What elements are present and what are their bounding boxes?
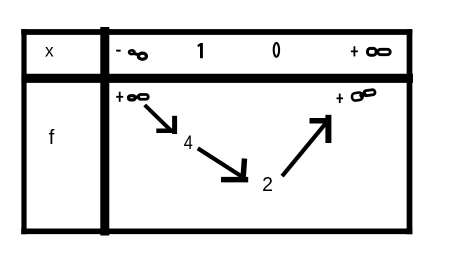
svg-text:2: 2 <box>262 174 273 197</box>
infinity symbol f-row right <box>351 89 375 101</box>
table outer border left edge <box>21 29 26 234</box>
plus sign of +infinity f-row left <box>116 92 123 102</box>
plus sign of +infinity f-row right <box>337 94 344 103</box>
minus sign of -infinity <box>116 50 121 52</box>
row separator line <box>21 74 413 83</box>
svg-text:f: f <box>49 127 55 149</box>
value 1 <box>198 43 203 58</box>
column divider line <box>100 27 109 236</box>
infinity symbol top-left <box>128 49 147 59</box>
plus sign of +infinity top-right <box>351 46 358 56</box>
table outer border top edge <box>21 29 412 35</box>
arrow 1 shaft (down-right) <box>145 105 171 130</box>
arrow 3 head <box>310 115 330 143</box>
arrow 2 shaft (down-right) <box>198 148 241 176</box>
svg-text:4: 4 <box>184 131 193 153</box>
arrow 2 head <box>221 159 248 180</box>
arrow 1 head <box>156 116 175 134</box>
arrow 3 shaft (up-right) <box>282 119 329 176</box>
svg-text:x: x <box>45 41 54 61</box>
infinity symbol top-right <box>368 48 391 55</box>
table outer border bottom edge <box>21 228 412 234</box>
value 0 <box>274 43 279 57</box>
table outer border right edge <box>407 29 413 234</box>
infinity symbol f-row left <box>129 95 149 100</box>
